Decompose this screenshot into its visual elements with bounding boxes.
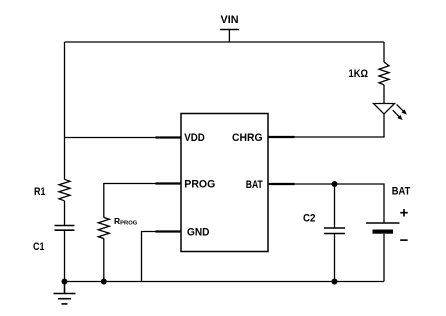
LED arrow 1 — [397, 104, 404, 111]
svg-text:CHRG: CHRG — [232, 132, 263, 144]
pin stub GND pin — [156, 230, 182, 232]
junction dot left ground node — [62, 279, 68, 285]
svg-text:−: − — [400, 232, 409, 249]
svg-text:BAT: BAT — [246, 179, 263, 191]
junction dot C2 bottom — [332, 279, 338, 285]
pin stub VDD pin — [156, 136, 182, 138]
pin stub BAT pin — [268, 183, 295, 185]
svg-text:BAT: BAT — [392, 186, 411, 198]
capacitor C2 — [324, 228, 345, 234]
wire RPROG to bottom rail — [103, 239, 105, 282]
wire R1 to C1 — [64, 201, 66, 226]
wire VDD net (left rail to pin) — [65, 137, 156, 139]
wire VIN top rail — [65, 41, 385, 43]
LED arrow 2 — [393, 110, 400, 117]
wire C2 top lead — [334, 184, 336, 228]
wire CHRG net to LED — [295, 114, 385, 137]
terminal VIN — [220, 30, 239, 43]
wire top rail to 1K resistor — [383, 42, 385, 62]
battery BT1 — [366, 223, 400, 282]
svg-text:GND: GND — [187, 227, 210, 239]
svg-text:1KΩ: 1KΩ — [349, 68, 369, 80]
wire PROG net (corner to RPROG) — [104, 184, 156, 218]
svg-text:RPROG: RPROG — [114, 216, 138, 227]
wire C2 bottom lead — [334, 234, 336, 282]
wire bottom rail — [65, 281, 385, 283]
ground — [54, 282, 76, 304]
svg-text:C2: C2 — [303, 213, 316, 225]
wire C1 to bottom rail — [64, 230, 66, 281]
junction dot C2 top — [332, 181, 338, 187]
junction dot RPROG bottom — [101, 279, 107, 285]
svg-text:PROG: PROG — [184, 179, 215, 191]
svg-text:C1: C1 — [33, 241, 45, 253]
svg-text:VDD: VDD — [184, 132, 205, 144]
resistor RPROG — [98, 218, 109, 239]
capacitor C1 — [55, 226, 75, 231]
svg-text:R1: R1 — [34, 186, 46, 198]
resistor 1K — [379, 62, 389, 85]
svg-text:VIN: VIN — [221, 14, 239, 26]
wire GND net (pin corner down to bottom rail) — [142, 232, 156, 282]
LED D1 — [374, 104, 407, 121]
resistor R1 — [59, 179, 70, 201]
wire BAT net to battery — [295, 184, 385, 223]
wire left vertical (VIN to R1) — [64, 42, 66, 180]
op-amp U1 charger IC body — [181, 114, 268, 252]
pin stub CHRG pin — [268, 136, 295, 138]
svg-text:+: + — [400, 205, 409, 222]
pin stub PROG pin — [156, 182, 182, 184]
wire 1K to LED — [383, 85, 385, 104]
